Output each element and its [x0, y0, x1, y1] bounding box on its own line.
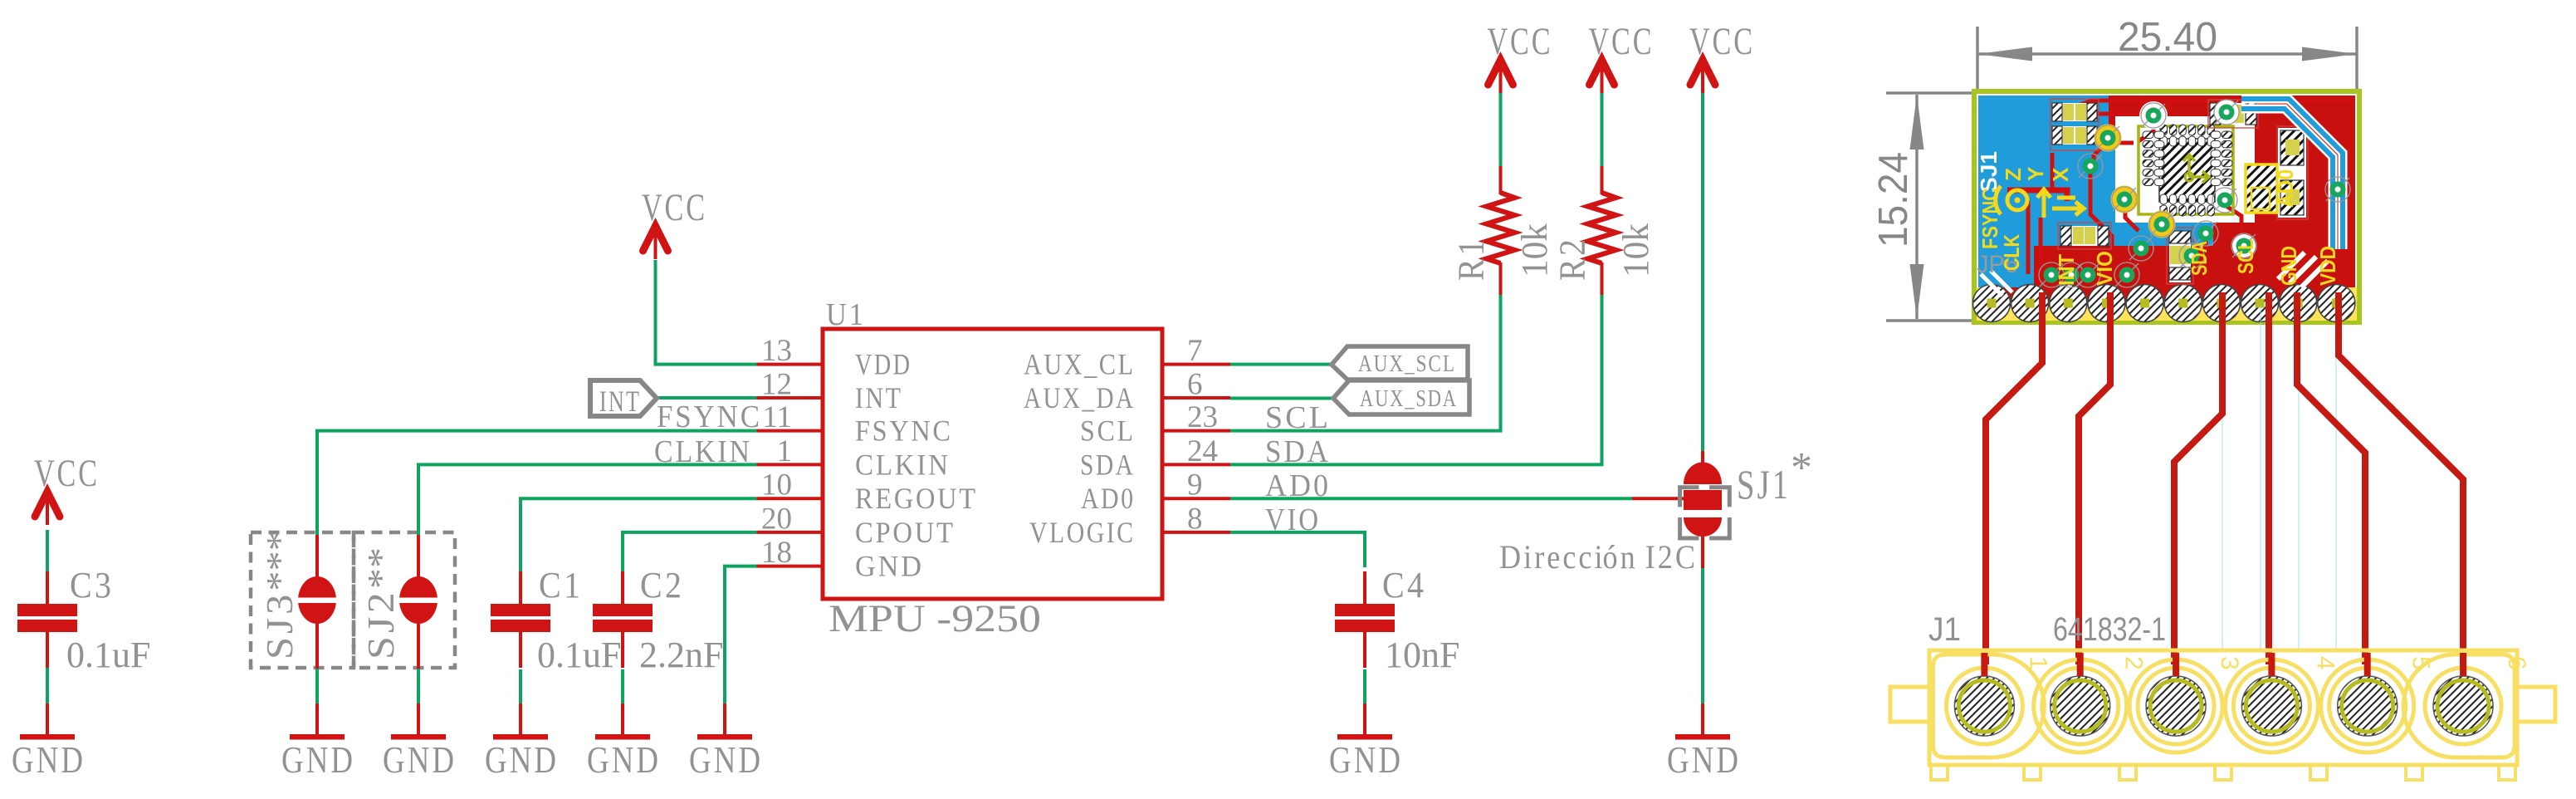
ground (C4)	[1329, 703, 1400, 781]
power VCC (VDD pin 13)	[642, 186, 705, 259]
wire VDD net	[656, 260, 757, 365]
ground (pin 18 net)	[689, 703, 760, 781]
pin 20 CPOUT	[757, 502, 954, 549]
net flag INT	[590, 380, 657, 416]
SMD pads C2 top-right	[2208, 100, 2258, 128]
svg-text:A U X _ C L: A U X _ C L	[1024, 348, 1133, 381]
wire SDA net	[1230, 295, 1602, 464]
svg-text:F S Y N C: F S Y N C	[855, 414, 951, 448]
svg-text:U 1: U 1	[826, 297, 863, 332]
svg-text:11: 11	[762, 400, 792, 434]
svg-text:23: 23	[1187, 400, 1218, 434]
svg-text:D i r e c c ió n I 2 C: D i r e c c ió n I 2 C	[1499, 538, 1695, 576]
svg-text:G N D: G N D	[1329, 738, 1400, 781]
pin 1 CLKIN	[757, 434, 949, 482]
wire	[46, 668, 49, 703]
PCB dimension 25.40 horizontal	[1977, 15, 2357, 94]
pin 24 SDA	[1080, 434, 1230, 482]
svg-text:1: 1	[777, 434, 793, 468]
svg-text:10: 10	[761, 468, 792, 502]
net flag AUX_SDA	[1333, 380, 1469, 414]
silk pin names on board	[1977, 188, 2340, 286]
trace stubs into J1 pads	[1984, 653, 2463, 676]
wire	[417, 669, 420, 703]
SMD pads right-mid vertical	[2277, 126, 2308, 219]
wire	[1701, 568, 1704, 703]
pad AD0	[2246, 164, 2298, 213]
svg-text:V D D: V D D	[855, 348, 910, 381]
svg-text:R 2: R 2	[1552, 239, 1593, 281]
power VCC (C3 branch)	[34, 452, 97, 525]
svg-text:AD0: AD0	[2273, 169, 2298, 208]
svg-text:R E G O U T: R E G O U T	[855, 482, 975, 515]
ground	[383, 703, 454, 781]
ground	[587, 703, 658, 781]
svg-text:A U X _ S C L: A U X _ S C L	[1358, 350, 1454, 377]
svg-text:13: 13	[761, 334, 792, 368]
wire AD0 net	[1230, 497, 1632, 500]
svg-text:3: 3	[2216, 656, 2243, 670]
pin 13 VDD	[757, 334, 911, 381]
svg-text:Z: Z	[2001, 168, 2026, 181]
svg-text:VDD: VDD	[2315, 246, 2340, 286]
svg-text:A U X _ D A: A U X _ D A	[1024, 381, 1133, 414]
capacitor C3	[17, 565, 150, 675]
svg-text:G N D: G N D	[587, 738, 658, 781]
svg-text:C 3: C 3	[70, 565, 111, 605]
svg-text:S C L: S C L	[1080, 414, 1133, 448]
svg-text:V C C: V C C	[34, 452, 97, 495]
svg-text:24: 24	[1187, 434, 1218, 468]
power VCC (SJ1)	[1689, 20, 1752, 93]
svg-text:G N D: G N D	[383, 738, 454, 781]
PCB board outline	[1974, 91, 2359, 322]
svg-text:C 4: C 4	[1382, 565, 1424, 605]
ground	[485, 703, 556, 781]
wire	[519, 669, 522, 703]
svg-text:A D 0: A D 0	[1081, 482, 1133, 515]
svg-text:MPU -9250: MPU -9250	[829, 597, 1041, 640]
connector J1	[1890, 650, 2555, 780]
pin 11 FSYNC	[757, 400, 951, 448]
wire REGOUT net	[521, 498, 757, 571]
svg-text:6: 6	[1187, 368, 1203, 402]
svg-text:V C C: V C C	[1589, 20, 1652, 63]
pin 10 REGOUT	[757, 468, 976, 516]
svg-text:SDA: SDA	[2187, 241, 2212, 276]
pin 8 VLOGIC	[1029, 502, 1230, 549]
solder jumper SJ3	[259, 531, 338, 669]
traces board to J1	[1986, 292, 2463, 664]
wire	[1701, 93, 1704, 451]
svg-text:C 2: C 2	[640, 565, 682, 605]
wire AD0 to SJ1	[1632, 497, 1685, 500]
svg-text:15.24: 15.24	[1871, 152, 1916, 248]
capacitor C4	[1335, 565, 1459, 675]
wire SCL net	[1230, 295, 1501, 431]
wire	[315, 669, 319, 703]
PCB bottom pads row	[1973, 285, 2355, 322]
wire	[1499, 93, 1503, 166]
svg-text:SCL: SCL	[2233, 239, 2258, 274]
wire VIO net	[1230, 532, 1365, 567]
ground	[12, 703, 83, 781]
ground (SJ1)	[1667, 703, 1738, 781]
wire AUX_SDA net	[1230, 397, 1333, 400]
solder jumper SJ3 dashed outline	[251, 532, 354, 668]
svg-text:12: 12	[761, 368, 792, 402]
svg-text:S J 2 **: S J 2 **	[360, 547, 402, 659]
svg-text:10k: 10k	[1615, 223, 1656, 277]
wire GND net pin18	[725, 566, 757, 703]
wire FSYNC net	[317, 431, 757, 535]
svg-text:G N D: G N D	[12, 738, 83, 781]
svg-text:6: 6	[2503, 656, 2530, 670]
svg-text:*: *	[1791, 444, 1812, 492]
svg-text:V C C: V C C	[642, 186, 705, 229]
IC footprint QFN	[2139, 125, 2233, 216]
svg-text:C P O U T: C P O U T	[855, 516, 953, 549]
svg-text:9: 9	[1187, 468, 1203, 502]
svg-text:C L K I N: C L K I N	[654, 434, 750, 469]
svg-text:G N D: G N D	[1667, 738, 1738, 781]
SMD pads mid-left	[2058, 223, 2111, 249]
pin 18 GND	[757, 536, 922, 583]
solder jumper SJ2	[360, 535, 439, 669]
svg-text:18: 18	[761, 536, 792, 570]
wire	[46, 530, 49, 571]
silk axis marker	[1996, 167, 2084, 218]
capacitor C1	[491, 565, 621, 675]
solder jumper SJ1	[1680, 451, 1730, 568]
svg-text:10k: 10k	[1514, 223, 1555, 277]
SMD pads mid-bottom	[2167, 228, 2193, 284]
svg-text:V C C: V C C	[1689, 20, 1752, 63]
svg-text:641832-1: 641832-1	[2053, 611, 2166, 648]
svg-text:X: X	[2048, 167, 2073, 182]
svg-text:2.2nF: 2.2nF	[639, 635, 723, 675]
ground	[281, 703, 353, 781]
wire CLKIN net	[418, 464, 757, 535]
svg-text:INT: INT	[2054, 254, 2079, 286]
svg-text:F S Y N C: F S Y N C	[657, 399, 760, 434]
svg-text:8: 8	[1187, 502, 1203, 536]
power VCC (R2)	[1589, 20, 1652, 93]
svg-text:4: 4	[2311, 656, 2339, 670]
svg-text:I N T: I N T	[855, 381, 901, 414]
pin 7 AUX_CL	[1024, 334, 1230, 381]
svg-text:GND: GND	[2276, 246, 2301, 286]
SJ1 dashed bracket	[1680, 488, 1699, 507]
svg-text:VIO: VIO	[2092, 251, 2117, 286]
wire CPOUT net	[623, 532, 757, 571]
svg-text:G N D: G N D	[689, 738, 760, 781]
svg-text:G N D: G N D	[281, 738, 353, 781]
svg-text:V C C: V C C	[1488, 20, 1551, 63]
svg-text:C L K I N: C L K I N	[855, 448, 948, 481]
svg-text:0.1uF: 0.1uF	[66, 635, 150, 675]
resistor R2 10k	[1552, 166, 1657, 295]
svg-text:S D A: S D A	[1080, 448, 1133, 481]
pin 23 SCL	[1080, 400, 1230, 448]
svg-text:0.1uF: 0.1uF	[537, 635, 621, 675]
pin 6 AUX_DA	[1024, 368, 1230, 415]
wire AUX_SCL net	[1230, 363, 1332, 366]
svg-text:10nF: 10nF	[1385, 635, 1459, 675]
PCB copper pours	[1978, 96, 2355, 292]
op-amp U1 MPU-9250 box	[823, 329, 1162, 599]
wire	[621, 669, 624, 703]
wire	[1601, 93, 1604, 166]
svg-text:SJ1: SJ1	[1976, 151, 2002, 193]
svg-text:R 1: R 1	[1451, 239, 1492, 281]
svg-text:S D A: S D A	[1265, 434, 1329, 469]
SMD pads top-left	[2051, 99, 2099, 150]
svg-text:A D 0: A D 0	[1265, 468, 1328, 503]
pin 12 INT	[757, 368, 902, 415]
svg-text:1: 1	[2024, 656, 2051, 670]
vias	[2039, 100, 2350, 287]
blue traces top-right	[2241, 99, 2343, 287]
svg-text:20: 20	[761, 502, 792, 536]
PCB bottom pad strip	[1977, 287, 2357, 321]
svg-text:V L O G I C: V L O G I C	[1029, 516, 1133, 549]
svg-text:G N D: G N D	[485, 738, 556, 781]
svg-text:G N D: G N D	[855, 550, 921, 583]
svg-text:J1: J1	[1928, 611, 1961, 648]
svg-text:CLK: CLK	[1999, 234, 2024, 271]
svg-text:A U X _ S D A: A U X _ S D A	[1360, 385, 1456, 412]
svg-text:S C L: S C L	[1265, 400, 1328, 435]
svg-text:I N T: I N T	[599, 385, 639, 418]
svg-text:2: 2	[2120, 656, 2148, 670]
svg-text:C 1: C 1	[539, 565, 580, 605]
capacitor C2	[593, 565, 723, 675]
red traces on board	[2007, 100, 2355, 284]
resistor R1 10k	[1451, 166, 1556, 295]
svg-text:25.40: 25.40	[2118, 15, 2217, 60]
solder jumper SJ2 dashed outline	[354, 532, 455, 668]
white knockout traces bottom-left	[1981, 271, 2012, 296]
svg-text:S J 1: S J 1	[1737, 461, 1788, 507]
ratsnest lines	[2222, 306, 2336, 649]
net flag AUX_SCL	[1332, 346, 1468, 380]
svg-text:S J 3 ***: S J 3 ***	[259, 531, 301, 659]
power VCC (R1)	[1488, 20, 1551, 93]
wire	[1363, 669, 1366, 703]
PCB dimension 15.24 vertical	[1871, 93, 1976, 321]
svg-text:V I O: V I O	[1265, 502, 1318, 537]
svg-text:Y: Y	[2023, 167, 2048, 181]
wire INT net	[655, 396, 757, 399]
pin 9 AD0	[1081, 468, 1230, 516]
PCB white center patch	[2115, 116, 2255, 223]
svg-text:7: 7	[1187, 334, 1203, 368]
